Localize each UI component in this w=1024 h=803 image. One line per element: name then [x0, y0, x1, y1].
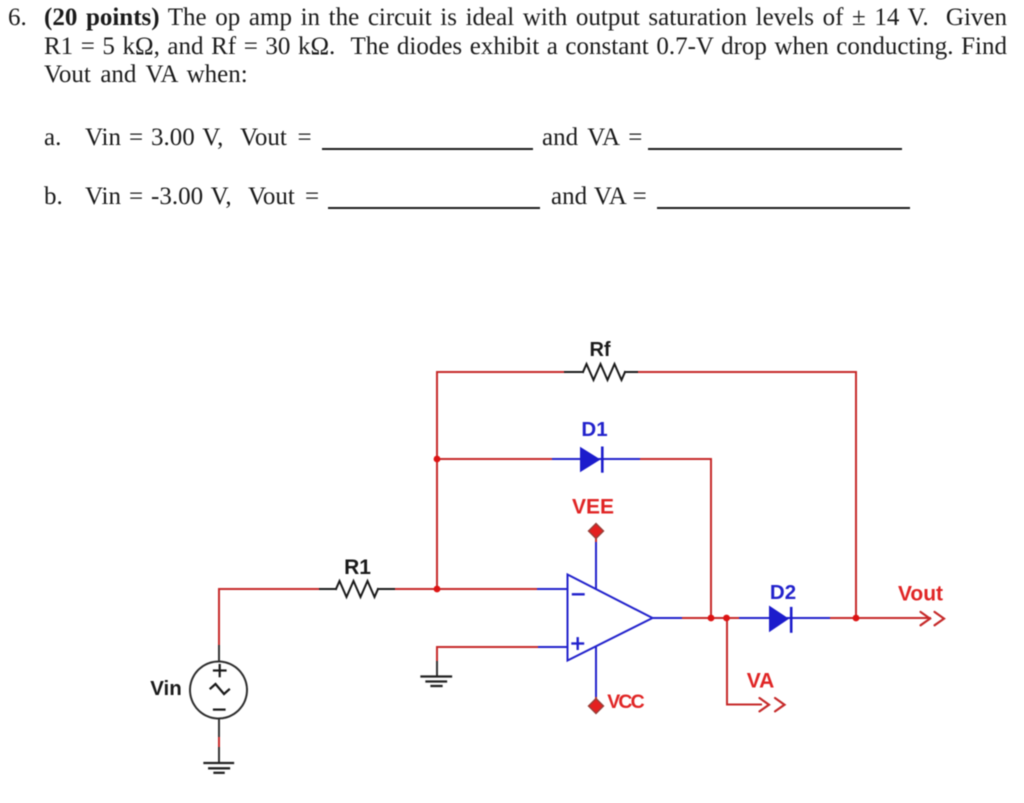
svg-text:R1: R1 [344, 556, 371, 579]
svg-text:D1: D1 [581, 418, 607, 441]
svg-text:D2: D2 [770, 581, 796, 604]
svg-text:VA: VA [747, 670, 775, 693]
svg-text:Vout: Vout [898, 583, 943, 606]
svg-text:Rf: Rf [589, 339, 610, 361]
svg-text:Vin: Vin [150, 677, 182, 700]
svg-text:VEE: VEE [572, 496, 614, 519]
svg-text:VCC: VCC [607, 691, 645, 713]
